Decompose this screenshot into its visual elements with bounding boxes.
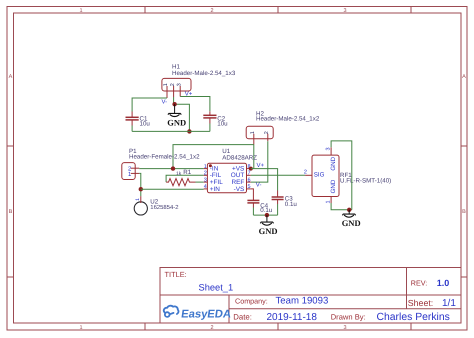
wire U1 OUT to RF1 SIG <box>251 174 305 176</box>
EasyEDA logo <box>164 306 232 321</box>
junction node on gnd rail <box>187 129 191 133</box>
svg-text:2019-11-18: 2019-11-18 <box>267 312 318 323</box>
svg-text:2: 2 <box>264 131 270 134</box>
svg-text:2: 2 <box>204 171 207 177</box>
svg-text:Drawn By:: Drawn By: <box>331 313 366 322</box>
svg-text:TITLE:: TITLE: <box>165 270 187 279</box>
C3 bottom pin <box>277 200 279 204</box>
svg-text:0.1u: 0.1u <box>260 207 273 214</box>
wire V- from H1 pin1 <box>132 98 167 112</box>
svg-text:1625854-2: 1625854-2 <box>150 204 178 211</box>
C1 bottom pin <box>131 120 133 125</box>
wire U1 +VS to C3 <box>251 169 278 191</box>
svg-text:1: 1 <box>163 83 169 86</box>
svg-text:6: 6 <box>248 177 251 183</box>
H2 pins 1 2 <box>254 134 268 145</box>
svg-text:1k: 1k <box>176 171 182 177</box>
wire R1 to U1 pin3 +FIL <box>196 181 204 183</box>
svg-text:+IN: +IN <box>210 186 221 193</box>
svg-text:REV:: REV: <box>411 279 428 288</box>
H2 body <box>246 126 273 138</box>
wire RF1 pin1 to gnd <box>331 203 352 210</box>
C3 plates <box>272 196 284 198</box>
svg-text:Date:: Date: <box>233 313 252 322</box>
C1 plates <box>126 116 139 118</box>
pin 1 marker dot <box>209 164 212 167</box>
svg-text:GND: GND <box>342 218 361 228</box>
junction node at H1 gnd <box>172 102 176 106</box>
H2 pin numbers 1 2 <box>250 131 270 134</box>
resistor R1 <box>166 169 204 186</box>
wire P1 pin2 to U1 -IN <box>139 168 203 170</box>
svg-text:Sheet:: Sheet: <box>408 298 433 308</box>
U1 pin numbers 1 2 3 4 <box>204 164 207 190</box>
svg-text:1: 1 <box>325 200 331 203</box>
P1 pin numbers 2 1 <box>128 166 132 179</box>
header H1 <box>162 64 236 98</box>
svg-text:2: 2 <box>304 170 307 176</box>
wire RF1 pin3 loop to gnd <box>331 141 352 210</box>
wire V+ from H1 pin3 <box>180 97 210 112</box>
H1 pin numbers 1 2 3 <box>163 83 182 86</box>
svg-text:A: A <box>9 74 13 80</box>
svg-text:B: B <box>462 209 466 215</box>
C3 top pin <box>277 191 279 197</box>
wire H1 pin2 to gnd junction <box>173 97 175 104</box>
svg-text:V-: V- <box>162 99 168 106</box>
svg-text:GND: GND <box>330 156 337 170</box>
svg-text:3: 3 <box>177 83 183 86</box>
wire C1 to gnd rail <box>131 126 133 132</box>
C2 top pin <box>209 111 211 115</box>
svg-text:10u: 10u <box>217 120 228 127</box>
U1 pin names -IN -FIL +FIL +IN <box>210 166 223 193</box>
svg-text:V-: V- <box>256 181 262 188</box>
ground symbol GND1 <box>167 104 186 127</box>
svg-text:Header-Female-2.54_1x2: Header-Female-2.54_1x2 <box>129 153 200 160</box>
svg-text:0.1u: 0.1u <box>285 201 298 208</box>
svg-text:2: 2 <box>170 83 176 86</box>
wire H2 pin2 down to U1 REF <box>251 141 268 182</box>
RF1 body <box>312 155 339 196</box>
svg-text:3: 3 <box>204 177 207 183</box>
svg-text:5: 5 <box>248 184 251 190</box>
U1 pins 1-8 <box>204 169 251 189</box>
junction node RF1 gnd <box>347 208 351 212</box>
wire +IN run to U1 pin4 <box>141 188 204 190</box>
svg-text:1: 1 <box>79 8 82 14</box>
C4 bottom pin <box>252 203 254 207</box>
svg-text:3: 3 <box>343 325 346 331</box>
svg-text:3: 3 <box>343 8 346 14</box>
U1 pin names +VS OUT REF -VS <box>231 166 245 193</box>
svg-text:1: 1 <box>79 325 82 331</box>
svg-text:Company:: Company: <box>235 297 268 306</box>
svg-text:-VS: -VS <box>234 186 245 193</box>
U2 body circle <box>134 202 147 215</box>
junction node at U1 pin8 <box>249 167 253 171</box>
svg-text:Sheet_1: Sheet_1 <box>199 282 234 292</box>
svg-text:V+: V+ <box>185 90 193 97</box>
svg-text:3: 3 <box>325 147 331 150</box>
capacitor C2 <box>203 111 228 131</box>
wire H2 pin1 down to U1 +VS <box>253 145 255 169</box>
svg-text:Team 19093: Team 19093 <box>276 296 329 307</box>
U1 body <box>207 163 246 193</box>
svg-text:B: B <box>9 209 13 215</box>
junction node -IN net <box>171 166 175 170</box>
svg-text:A: A <box>462 74 466 80</box>
wire U1 pin2 -FIL to R1 <box>166 175 204 182</box>
svg-text:1: 1 <box>204 164 207 170</box>
C1 top pin <box>131 112 133 118</box>
svg-text:2: 2 <box>210 325 213 331</box>
C2 bottom pin <box>209 118 211 123</box>
gnd rail under C3 C4 <box>253 214 277 216</box>
svg-text:Header-Male-2.54_1x3: Header-Male-2.54_1x3 <box>172 70 236 77</box>
wire P1 pin1 down <box>139 173 141 196</box>
svg-text:AD8428ARZ: AD8428ARZ <box>222 154 257 161</box>
wire C2 to gnd rail <box>209 124 211 132</box>
svg-text:U.FL-R-SMT-1(40): U.FL-R-SMT-1(40) <box>340 177 391 184</box>
svg-text:1.0: 1.0 <box>437 278 450 288</box>
gnd rail under H1 <box>132 130 210 132</box>
svg-text:Charles Perkins: Charles Perkins <box>377 312 450 323</box>
svg-text:EasyEDA: EasyEDA <box>180 308 231 320</box>
svg-text:10u: 10u <box>140 120 151 127</box>
U2 pin 1 <box>140 196 142 203</box>
wire C4 to gnd rail <box>252 208 254 216</box>
wire gnd junction to rail <box>174 104 190 131</box>
op-amp U1 AD8428ARZ <box>204 148 258 193</box>
wire U1 -VS to C4 <box>251 189 254 196</box>
capacitor C4 <box>247 196 272 215</box>
C2 plates <box>203 114 216 116</box>
svg-text:GND: GND <box>259 226 278 236</box>
svg-text:R1: R1 <box>183 169 191 176</box>
wire C3 to gnd rail <box>277 204 279 215</box>
svg-text:GND: GND <box>167 117 186 127</box>
capacitor C3 <box>272 191 298 216</box>
C4 plates <box>247 199 259 201</box>
wire H2 pin1 branch to -IN net <box>173 145 254 169</box>
connector P1 <box>122 148 200 180</box>
header H2 <box>246 111 320 145</box>
H1 body <box>162 78 191 91</box>
U1 pin numbers 8 7 6 5 <box>248 164 251 190</box>
ground symbol GND2 <box>259 215 278 236</box>
svg-text:SIG: SIG <box>314 172 325 179</box>
jack U2 <box>134 196 178 215</box>
capacitor C1 <box>126 112 151 132</box>
P1 pins 2 1 <box>131 168 140 173</box>
svg-text:4: 4 <box>204 184 207 190</box>
svg-text:7: 7 <box>248 171 251 177</box>
RF1 pins 2 3 1 <box>305 147 331 203</box>
junction node +IN net <box>139 187 143 191</box>
ground symbol GND3 <box>342 210 361 228</box>
junction node on C3 C4 rail <box>265 213 269 217</box>
rf connector RF1 <box>304 147 391 203</box>
C4 top pin <box>252 196 254 200</box>
resistor R1 zigzag <box>166 179 195 186</box>
svg-text:1/1: 1/1 <box>442 298 456 309</box>
svg-text:GND: GND <box>330 179 337 193</box>
P1 body <box>122 163 135 180</box>
title block <box>160 268 461 324</box>
RF1 pin numbers 2 3 1 <box>304 147 331 203</box>
svg-text:2: 2 <box>210 8 213 14</box>
H1 pins 1 2 3 <box>167 86 180 98</box>
svg-text:1: 1 <box>135 198 141 201</box>
svg-text:Header-Male-2.54_1x2: Header-Male-2.54_1x2 <box>256 116 320 123</box>
svg-text:1: 1 <box>250 131 256 134</box>
